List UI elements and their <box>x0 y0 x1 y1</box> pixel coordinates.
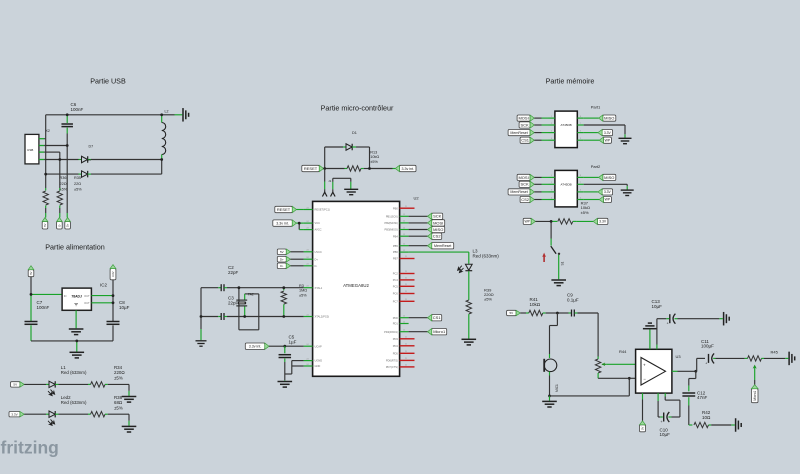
svg-text:5V: 5V <box>510 311 514 315</box>
svg-text:±5%: ±5% <box>60 187 68 191</box>
svg-text:PB1(SCK): PB1(SCK) <box>386 214 398 218</box>
svg-text:3.3V: 3.3V <box>599 220 607 224</box>
svg-text:PB7: PB7 <box>393 257 398 261</box>
svg-text:MemReset: MemReset <box>434 244 451 248</box>
svg-text:MOSI: MOSI <box>518 175 528 180</box>
svg-text:D-: D- <box>280 264 283 268</box>
svg-text:OUT: OUT <box>84 294 90 298</box>
svg-text:J1: J1 <box>328 179 331 183</box>
svg-text:U2: U2 <box>414 196 420 201</box>
svg-text:XTAL1: XTAL1 <box>315 286 323 290</box>
svg-text:5V: 5V <box>13 382 17 386</box>
svg-text:PB5: PB5 <box>393 244 398 248</box>
svg-text:RESET: RESET <box>277 207 291 212</box>
svg-text:S1: S1 <box>561 261 565 265</box>
svg-text:Partie micro-contrôleur: Partie micro-contrôleur <box>321 104 394 113</box>
svg-text:+: + <box>667 322 669 326</box>
svg-text:3.3V: 3.3V <box>11 412 17 416</box>
svg-text:22pF: 22pF <box>228 270 239 275</box>
svg-text:MOSI: MOSI <box>433 220 443 225</box>
svg-text:VCC: VCC <box>315 221 321 225</box>
svg-text:Partie USB: Partie USB <box>90 77 126 86</box>
svg-text:OUT: OUT <box>84 301 90 305</box>
svg-text:D-: D- <box>57 224 61 227</box>
svg-text:MISO: MISO <box>604 175 614 180</box>
svg-text:47nF: 47nF <box>697 395 708 400</box>
svg-text:Part1: Part1 <box>591 105 601 110</box>
svg-text:R35: R35 <box>74 176 81 180</box>
svg-text:22Ω: 22Ω <box>60 182 67 186</box>
svg-text:PC6: PC6 <box>393 292 399 296</box>
svg-text:5V: 5V <box>280 250 284 254</box>
svg-text:PC2: PC2 <box>393 272 399 276</box>
svg-text:1µF: 1µF <box>289 339 297 344</box>
svg-text:0.1µF: 0.1µF <box>567 297 579 302</box>
svg-text:Partie mémoire: Partie mémoire <box>546 77 595 86</box>
svg-text:5V: 5V <box>29 271 33 274</box>
svg-text:PC7: PC7 <box>393 299 399 303</box>
svg-text:PD7(CTS): PD7(CTS) <box>386 365 398 369</box>
svg-text:SCK: SCK <box>520 122 529 127</box>
svg-text:D+: D+ <box>66 223 70 227</box>
svg-text:R13: R13 <box>370 151 377 155</box>
svg-text:3.3V: 3.3V <box>604 190 612 194</box>
svg-text:5V: 5V <box>43 223 47 226</box>
svg-text:1MΩ: 1MΩ <box>299 289 307 293</box>
svg-text:CS2: CS2 <box>433 234 442 239</box>
svg-text:22Ω: 22Ω <box>74 182 81 186</box>
svg-text:MOSI: MOSI <box>518 116 528 121</box>
svg-text:10kΩ: 10kΩ <box>530 302 541 307</box>
svg-text:PD5: PD5 <box>393 351 399 355</box>
svg-text:+: + <box>661 420 663 424</box>
svg-text:L2: L2 <box>165 110 169 114</box>
svg-text:fritzing: fritzing <box>1 438 59 458</box>
svg-text:Part2: Part2 <box>591 164 601 169</box>
svg-text:PD6(RTS): PD6(RTS) <box>386 359 398 363</box>
svg-text:10kΩ: 10kΩ <box>370 155 379 159</box>
svg-text:PD0: PD0 <box>393 316 399 320</box>
svg-text:MISO: MISO <box>433 227 443 232</box>
svg-text:3.3V: 3.3V <box>111 271 115 277</box>
svg-text:±5%: ±5% <box>114 405 123 410</box>
svg-text:WP: WP <box>605 198 611 202</box>
svg-text:R36: R36 <box>60 176 67 180</box>
svg-text:IC2: IC2 <box>100 282 108 287</box>
svg-text:Micro1: Micro1 <box>753 391 757 401</box>
svg-text:R3: R3 <box>299 284 304 288</box>
svg-text:GND: GND <box>315 364 321 368</box>
svg-text:AT45DB: AT45DB <box>561 183 572 187</box>
svg-text:WP: WP <box>524 220 530 224</box>
svg-text:78ADJ: 78ADJ <box>71 294 82 298</box>
svg-text:PB6: PB6 <box>393 250 398 254</box>
svg-text:ATMEGA8U2: ATMEGA8U2 <box>343 283 369 288</box>
svg-text:+: + <box>705 361 707 365</box>
svg-text:3.3v int.: 3.3v int. <box>249 344 262 348</box>
svg-text:PB3(MISO): PB3(MISO) <box>385 228 398 232</box>
svg-text:FA2: FA2 <box>248 292 254 296</box>
svg-text:UGND: UGND <box>315 359 323 363</box>
svg-text:MIC1: MIC1 <box>555 384 559 392</box>
svg-text:100nF: 100nF <box>37 305 50 310</box>
svg-text:Red (633nm): Red (633nm) <box>61 400 87 405</box>
svg-text:Micro1: Micro1 <box>433 329 446 334</box>
svg-text:AVCC: AVCC <box>315 228 322 232</box>
svg-text:PC5: PC5 <box>393 284 399 288</box>
svg-text:D+: D+ <box>315 257 319 261</box>
svg-text:SCK: SCK <box>520 182 529 187</box>
svg-text:AT45DB: AT45DB <box>561 123 572 127</box>
svg-text:D1: D1 <box>352 131 357 135</box>
svg-text:PD3: PD3 <box>393 337 399 341</box>
svg-text:3.3v int.: 3.3v int. <box>401 167 414 171</box>
svg-text:10µF: 10µF <box>652 304 663 309</box>
svg-text:10Ω: 10Ω <box>702 415 711 420</box>
svg-text:XTAL2(PC0): XTAL2(PC0) <box>315 315 330 319</box>
svg-text:R44: R44 <box>619 349 627 354</box>
svg-text:CS1: CS1 <box>521 138 530 143</box>
svg-text:−: − <box>643 377 646 382</box>
svg-text:±5%: ±5% <box>370 160 378 164</box>
svg-text:D-: D- <box>315 264 318 268</box>
svg-text:10µF: 10µF <box>119 305 130 310</box>
svg-text:D6: D6 <box>87 158 91 162</box>
svg-text:UVCC: UVCC <box>315 250 322 254</box>
svg-text:CS2: CS2 <box>521 197 530 202</box>
svg-text:IN: IN <box>64 294 67 298</box>
svg-text:+: + <box>643 362 646 367</box>
svg-text:PB0: PB0 <box>393 206 398 210</box>
svg-text:22pF: 22pF <box>228 300 239 305</box>
svg-text:D7: D7 <box>89 145 94 149</box>
svg-text:Red (633nm): Red (633nm) <box>61 370 87 375</box>
svg-text:PC4: PC4 <box>393 278 399 282</box>
svg-text:100µF: 100µF <box>701 344 714 349</box>
svg-text:MemReset: MemReset <box>510 190 527 194</box>
svg-text:100nF: 100nF <box>71 107 84 112</box>
svg-text:10µF: 10µF <box>660 432 671 437</box>
svg-text:PD4: PD4 <box>393 344 399 348</box>
svg-text:±5%: ±5% <box>74 187 82 191</box>
svg-text:Partie alimentation: Partie alimentation <box>45 243 105 252</box>
svg-text:UCAP: UCAP <box>315 344 322 348</box>
svg-text:PD1: PD1 <box>393 322 399 326</box>
svg-text:WP: WP <box>605 138 611 142</box>
svg-text:5V: 5V <box>640 426 644 429</box>
svg-text:Red (633nm): Red (633nm) <box>473 253 500 258</box>
svg-text:RESET: RESET <box>304 166 318 171</box>
svg-text:3.3V: 3.3V <box>604 131 612 135</box>
svg-text:CS1: CS1 <box>433 315 442 320</box>
svg-text:PB2(MOSI): PB2(MOSI) <box>385 221 398 225</box>
svg-text:MemReset: MemReset <box>510 131 527 135</box>
svg-text:MISO: MISO <box>604 116 614 121</box>
svg-text:D+: D+ <box>280 257 284 261</box>
svg-text:RESET(PC1): RESET(PC1) <box>315 208 331 212</box>
svg-text:SCK: SCK <box>433 214 442 219</box>
svg-text:U3: U3 <box>676 354 682 359</box>
svg-text:PB4: PB4 <box>393 234 398 238</box>
svg-text:USB: USB <box>27 148 33 152</box>
svg-text:X2: X2 <box>46 129 50 133</box>
svg-text:R45: R45 <box>771 349 779 354</box>
svg-text:±5%: ±5% <box>114 375 123 380</box>
svg-text:±5%: ±5% <box>581 210 589 215</box>
svg-text:PD2(RXD1): PD2(RXD1) <box>384 330 398 334</box>
svg-text:±5%: ±5% <box>299 293 307 297</box>
svg-text:3.3v int.: 3.3v int. <box>276 221 289 225</box>
svg-text:±5%: ±5% <box>484 297 492 302</box>
